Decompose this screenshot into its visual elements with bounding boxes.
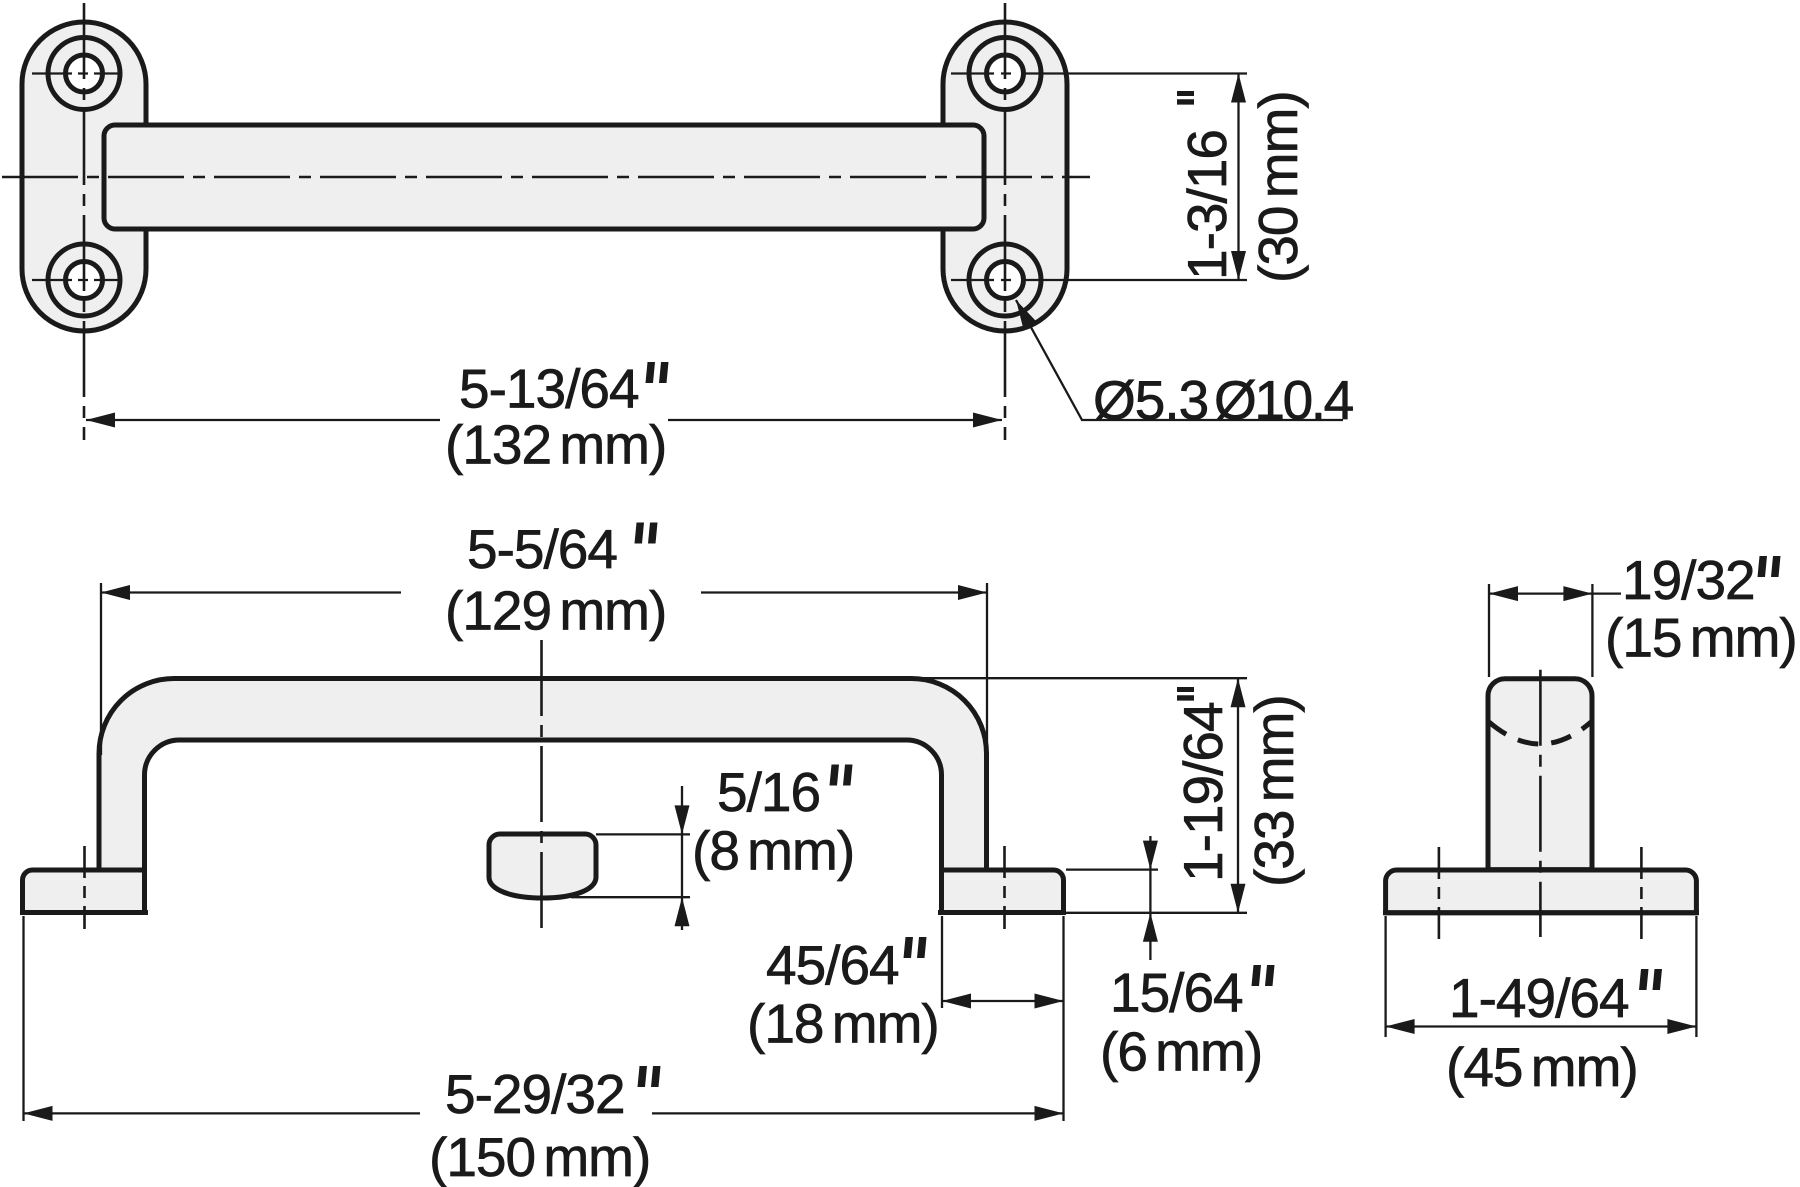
- dimension 15/64in 6mm: upper arrow (down): [1143, 841, 1158, 870]
- side view: stem: [1488, 679, 1592, 870]
- dimension 5-13/64in 132mm: right arrow: [973, 413, 1002, 428]
- svg-text:5-29/32: 5-29/32: [445, 1063, 625, 1125]
- top view: handle bar: [104, 125, 984, 229]
- svg-text:5-5/64: 5-5/64: [467, 518, 617, 580]
- dimension 19/32in 15mm: left arrow: [1489, 586, 1518, 601]
- dimension 1-49/64in 45mm: right arrow: [1667, 1019, 1696, 1034]
- front view: right foot: [938, 870, 1066, 913]
- svg-text:45/64: 45/64: [766, 934, 899, 996]
- dimension 15/64in 6mm: dimension line: [1149, 836, 1151, 960]
- dimension 5-29/32in 150mm: extension line left: [22, 916, 24, 1121]
- extension line: right bottom hole horizontal (30mm dim): [951, 279, 1247, 281]
- svg-text:Ø5.3: Ø5.3: [1093, 369, 1208, 431]
- centerline: right foot hole: [1003, 846, 1006, 929]
- dimension 5-29/32in 150mm: line: [24, 1112, 421, 1114]
- centerline: side view vertical axis: [1539, 670, 1542, 937]
- dimension 5-13/64in 132mm: line: [86, 419, 440, 421]
- centerline: front view vertical axis: [540, 640, 543, 934]
- side view: hidden arc of grip underside: [1489, 722, 1591, 744]
- dimension 1-19/64in 33mm: dimension line: [1237, 678, 1239, 913]
- dimension 1-49/64in 45mm: left arrow: [1386, 1019, 1415, 1034]
- dimension 1-19/64in 33mm: bottom arrow: [1231, 884, 1246, 913]
- dimension 1-49/64in 45mm: line: [1386, 1025, 1697, 1027]
- dimension 5-5/64in 129mm: extension lines: [100, 583, 102, 755]
- centerline: left foot hole: [83, 846, 86, 929]
- leader arrowhead: [1016, 300, 1037, 329]
- centerline: side view right hole: [1640, 847, 1643, 940]
- dimension 19/32in 15mm: extension lines: [1488, 584, 1490, 677]
- dimension 15/64in 6mm: lower arrow (up): [1143, 913, 1158, 942]
- svg-text:(45 mm): (45 mm): [1446, 1036, 1638, 1098]
- side view: flange: [1383, 870, 1699, 913]
- svg-text:19/32: 19/32: [1622, 549, 1755, 611]
- hole top-left counterbore: [48, 38, 120, 110]
- front view: left foot: [20, 870, 148, 913]
- dimension 5/16in 8mm: lower arrow (up): [675, 897, 690, 926]
- svg-text:(6 mm): (6 mm): [1100, 1021, 1262, 1083]
- centerline: left plate top hole horizontal: [32, 72, 120, 74]
- dimension 1-3/16in 30mm: top arrow: [1231, 74, 1246, 103]
- dimension 1-3/16in 30mm: dimension line: [1237, 74, 1239, 281]
- dimension 5-29/32in 150mm: right arrow: [1035, 1106, 1064, 1121]
- svg-text:(15 mm): (15 mm): [1605, 607, 1797, 669]
- svg-text:1-19/64: 1-19/64: [1172, 702, 1234, 882]
- svg-text:1-49/64: 1-49/64: [1449, 967, 1629, 1029]
- dimension 1-49/64in 45mm: extension lines: [1384, 916, 1386, 1037]
- svg-text:5-13/64: 5-13/64: [459, 358, 639, 420]
- centerline: left plate vertical: [83, 3, 86, 440]
- dimension 5-5/64in 129mm: right arrow: [958, 585, 987, 600]
- hole bottom-right counterbore: [969, 244, 1041, 316]
- dimension 45/64in 18mm: left arrow: [942, 994, 971, 1009]
- svg-text:1-3/16: 1-3/16: [1176, 130, 1238, 280]
- dimension 1-19/64in 33mm: top arrow: [1231, 678, 1246, 707]
- dimension 1-3/16in 30mm: bottom arrow: [1231, 251, 1246, 280]
- front view: handle body: [99, 679, 987, 871]
- hole top-right counterbore: [969, 38, 1041, 110]
- dimension 5/16in 8mm: dimension line: [681, 786, 683, 930]
- svg-text:(132 mm): (132 mm): [445, 414, 666, 476]
- dimension 19/32in 15mm: right arrow: [1563, 586, 1592, 601]
- svg-text:(129 mm): (129 mm): [445, 580, 666, 642]
- dimension 5/16in 8mm: upper arrow (down): [675, 805, 690, 834]
- svg-text:(150 mm): (150 mm): [429, 1126, 650, 1187]
- extension line: right top hole horizontal (30mm dim): [951, 72, 1247, 74]
- dimension 5-5/64in 129mm: line: [101, 591, 401, 593]
- dimension 15/64in 6mm: extension lines: [1066, 868, 1158, 870]
- svg-text:(33 mm): (33 mm): [1243, 695, 1305, 887]
- dimension 5-29/32in 150mm: left arrow: [24, 1106, 53, 1121]
- svg-text:(18 mm): (18 mm): [747, 993, 939, 1055]
- dimension 5-5/64in 129mm: left arrow: [101, 585, 130, 600]
- dimension 19/32in 15mm: line: [1489, 592, 1621, 594]
- hole bottom-left counterbore: [48, 244, 120, 316]
- top view: left mounting plate: [22, 22, 146, 331]
- svg-text:15/64: 15/64: [1110, 961, 1243, 1023]
- centerline: side view left hole: [1438, 847, 1441, 940]
- centerline: left plate bottom hole horizontal: [32, 279, 120, 281]
- svg-text:Ø10.4: Ø10.4: [1214, 369, 1353, 431]
- svg-text:5/16: 5/16: [717, 761, 820, 823]
- front view: T-slot nut profile: [489, 834, 596, 898]
- dimension 5/16in 8mm: extension lines: [596, 833, 690, 835]
- dimension 45/64in 18mm: extension line left: [941, 916, 943, 1008]
- leader line: hole diameters: [1016, 300, 1343, 420]
- dimension 1-19/64in 33mm: top extension line: [915, 677, 1247, 679]
- svg-text:(8 mm): (8 mm): [692, 819, 854, 881]
- dimension 45/64in 18mm: line: [942, 1000, 1064, 1002]
- dimension 45/64in 18mm: extension line right (shared with 150mm): [1062, 916, 1064, 1121]
- centerline: right plate vertical: [1004, 3, 1007, 440]
- svg-text:(30 mm): (30 mm): [1247, 91, 1309, 283]
- top view: right mounting plate: [943, 22, 1067, 331]
- dimension 5-13/64in 132mm: left arrow: [86, 413, 115, 428]
- centerline: top view horizontal axis: [2, 176, 1090, 179]
- dimension 45/64in 18mm: right arrow: [1035, 994, 1064, 1009]
